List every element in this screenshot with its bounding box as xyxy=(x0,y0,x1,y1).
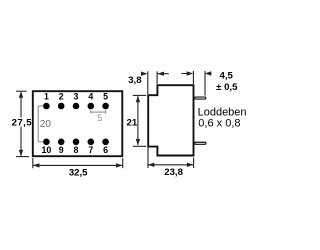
svg-text:23,8: 23,8 xyxy=(164,167,183,178)
svg-text:Loddeben: Loddeben xyxy=(198,106,247,118)
svg-text:5: 5 xyxy=(103,92,108,102)
pin 7 xyxy=(88,139,95,146)
svg-text:0,6 x 0,8: 0,6 x 0,8 xyxy=(198,118,240,130)
transformer body side view outline xyxy=(148,85,193,155)
svg-text:1: 1 xyxy=(44,92,49,102)
svg-text:3: 3 xyxy=(74,92,79,102)
svg-text:7: 7 xyxy=(88,145,93,155)
pin 8 xyxy=(73,139,80,146)
pin 3 xyxy=(73,103,80,110)
pin 10 xyxy=(43,139,50,146)
top solder pin xyxy=(195,97,206,99)
svg-text:21: 21 xyxy=(127,117,138,128)
pin 5 xyxy=(102,103,109,110)
svg-text:4: 4 xyxy=(88,92,93,102)
dimension 27,5 xyxy=(16,91,29,156)
dimension 20 line xyxy=(38,106,43,142)
dimension 21 xyxy=(133,95,146,146)
svg-text:3,8: 3,8 xyxy=(128,75,142,86)
svg-text:± 0,5: ± 0,5 xyxy=(216,82,238,93)
svg-text:5: 5 xyxy=(97,113,102,123)
dimension 23,8 xyxy=(148,148,194,169)
svg-text:27,5: 27,5 xyxy=(12,117,33,128)
bottom solder pin xyxy=(195,142,206,144)
svg-text:2: 2 xyxy=(59,92,64,102)
dimension 5 line xyxy=(91,110,106,114)
pin 6 xyxy=(102,139,109,146)
pin 9 xyxy=(58,139,65,146)
svg-text:8: 8 xyxy=(74,145,79,155)
dimension 32,5 xyxy=(33,158,123,168)
svg-text:4,5: 4,5 xyxy=(220,70,234,81)
pin 1 xyxy=(43,103,50,110)
pin 2 xyxy=(58,103,65,110)
dimension 4,5 +/-0,5 xyxy=(182,71,212,96)
svg-text:10: 10 xyxy=(42,145,52,155)
svg-text:6: 6 xyxy=(103,145,108,155)
svg-text:20: 20 xyxy=(40,119,52,130)
transformer body top view outline xyxy=(33,91,123,156)
dimension 3,8 xyxy=(141,71,169,94)
svg-text:32,5: 32,5 xyxy=(69,167,88,178)
pin 4 xyxy=(88,103,95,110)
svg-text:9: 9 xyxy=(59,145,64,155)
